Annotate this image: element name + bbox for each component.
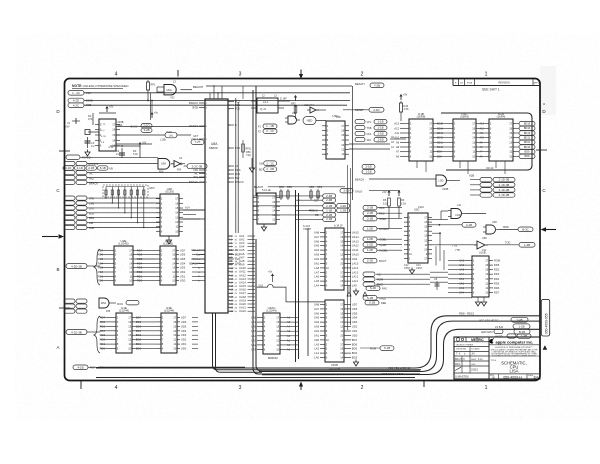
svg-text:RPD: RPD: [287, 186, 292, 189]
gate U4 inverter: [171, 157, 185, 172]
svg-text:F60: F60: [159, 171, 164, 174]
svg-text:LA6: LA6: [251, 325, 256, 329]
RAM enclosure bus box: [441, 113, 532, 170]
svg-text:LS10: LS10: [418, 206, 424, 209]
resistor pair BPD: [279, 186, 292, 200]
svg-text:UD2: UD2: [181, 338, 187, 342]
svg-text:A14: A14: [185, 207, 190, 210]
zone label 1 top: [485, 72, 488, 78]
note text: [72, 84, 128, 88]
svg-text:UA16: UA16: [239, 288, 246, 292]
svg-text:2-1B: 2-1B: [326, 204, 332, 208]
svg-text:(LS244): (LS244): [164, 309, 174, 313]
label BUS1 oval pair: [131, 124, 153, 133]
svg-text:1-3B: 1-3B: [524, 243, 530, 247]
svg-text:2-1D: 2-1D: [367, 259, 373, 263]
svg-text:BD: BD: [259, 169, 263, 172]
svg-text:ROMEN: ROMEN: [379, 227, 389, 231]
svg-text:UA5: UA5: [314, 244, 320, 248]
svg-text:D 14F: D 14F: [280, 98, 287, 101]
svg-text:HALT: HALT: [191, 137, 198, 141]
svg-text:BD5: BD5: [352, 347, 358, 351]
gate U30B: [355, 175, 460, 191]
svg-text:A13: A13: [394, 122, 399, 126]
svg-text:F.Lo: F.Lo: [478, 358, 483, 361]
svg-text:UA14: UA14: [352, 235, 359, 239]
svg-text:1-2D: 1-2D: [367, 227, 373, 231]
svg-text:STRB: STRB: [379, 217, 386, 221]
svg-text:LA3: LA3: [314, 342, 319, 346]
svg-text:ROM: ROM: [494, 259, 501, 263]
zone letter D right: [542, 102, 546, 114]
svg-text:2-1B: 2-1B: [367, 211, 373, 215]
wires into U9C: [349, 136, 406, 149]
svg-text:3/4: 3/4: [534, 376, 539, 380]
svg-text:LA8: LA8: [314, 266, 319, 270]
svg-text:CAS: CAS: [379, 206, 385, 210]
svg-text:A.14.1F: A.14.1F: [334, 225, 343, 228]
svg-text:A6: A6: [396, 154, 400, 158]
svg-text:UA2: UA2: [314, 257, 320, 261]
apple computer inc text: [496, 339, 534, 344]
svg-text:2-1B: 2-1B: [326, 217, 332, 221]
svg-text:VCC-VD1-VD7-F: VCC-VD1-VD7-F: [479, 320, 499, 323]
ground below U9E: [353, 289, 358, 367]
svg-text:UD3: UD3: [352, 320, 358, 324]
svg-text:S.MASTEK: S.MASTEK: [455, 374, 469, 378]
flip-flop U7D: [251, 95, 290, 114]
brace RD bus fan lower: [94, 316, 106, 353]
svg-text:(LS244): (LS244): [119, 309, 129, 313]
label BEACH mid: [254, 185, 345, 189]
svg-text:UD7: UD7: [352, 302, 358, 306]
wire harness left verticals: [104, 197, 142, 199]
wire D0B bus: [84, 104, 347, 106]
svg-text:UA19: UA19: [239, 298, 246, 302]
oval column CAS RAS group: [363, 206, 402, 222]
svg-text:1: 1: [485, 72, 488, 78]
svg-text:A: A: [56, 345, 59, 350]
svg-text:A22: A22: [229, 310, 234, 313]
svg-text:A20: A20: [229, 303, 234, 306]
IC U5C decoder: [404, 206, 432, 263]
svg-text:050-4009-055: 050-4009-055: [544, 313, 548, 334]
svg-text:1F 04: 1F 04: [108, 147, 114, 149]
crystal Y1: [85, 130, 100, 149]
svg-text:Y-4B: Y-4B: [516, 318, 522, 322]
svg-text:Y-2B: Y-2B: [374, 83, 380, 87]
zone tick right y=150: [536, 149, 547, 151]
svg-text:BD7: BD7: [352, 338, 358, 342]
bus name text VD0: [382, 366, 411, 376]
output ovals BD bus: [516, 122, 535, 159]
svg-text:LA13: LA13: [352, 270, 359, 274]
svg-text:A12: A12: [480, 127, 485, 130]
svg-text:VMA1: VMA1: [191, 249, 198, 252]
zone tick bottom x=424: [423, 381, 425, 387]
wires into ROM left: [448, 261, 465, 293]
gate NED oval: [303, 117, 326, 125]
ROM U10B: [459, 249, 501, 297]
svg-text:U6D: U6D: [492, 221, 497, 224]
svg-text:HD: HD: [377, 273, 381, 277]
svg-text:BOOT: BOOT: [379, 259, 387, 263]
RAM PAL U1C: [449, 112, 479, 161]
wire stepped with hop: [257, 284, 325, 302]
oval group A2B right: [469, 174, 515, 198]
svg-text:2.2: 2.2: [91, 145, 95, 148]
svg-text:MFG: MFG: [455, 363, 460, 366]
svg-text:UD3: UD3: [181, 333, 187, 337]
svg-text:UA17: UA17: [239, 291, 246, 295]
svg-text:4 CB: 4 CB: [101, 136, 106, 138]
svg-text:S-1D: S-1D: [370, 286, 377, 290]
svg-text:REE: REE: [381, 302, 386, 305]
connector ovals row y177: [64, 176, 205, 181]
svg-text:+5V: +5V: [65, 126, 70, 129]
svg-text:UD4: UD4: [181, 329, 187, 333]
title block frame: [454, 337, 540, 379]
svg-text:LAL: LAL: [169, 134, 174, 137]
bus latch U9E: [314, 300, 358, 371]
svg-text:RD2: RD2: [494, 268, 500, 272]
svg-text:UA10: UA10: [352, 253, 359, 257]
zone letter C right: [542, 188, 546, 193]
resistor R10 +5V: [399, 94, 409, 122]
svg-text:UA15: UA15: [239, 284, 246, 288]
svg-text:UA10: UA10: [239, 266, 246, 270]
svg-text:(S139): (S139): [165, 190, 174, 194]
oval 4-1D-3B: [66, 330, 100, 335]
svg-text:U5A: U5A: [161, 162, 166, 166]
svg-text:UA2: UA2: [314, 329, 320, 333]
svg-text:+5V: +5V: [109, 106, 114, 109]
svg-text:UA6: UA6: [239, 252, 245, 256]
svg-text:F08: F08: [106, 310, 111, 313]
svg-text:UA12: UA12: [239, 273, 246, 277]
svg-text:2-1D-3B: 2-1D-3B: [499, 178, 510, 182]
CPU address pin rows: [228, 234, 255, 313]
wires U1E to U3E: [135, 317, 198, 348]
svg-text:RD6: RD6: [494, 286, 500, 290]
revision block: [453, 79, 540, 91]
svg-text:DB: DB: [315, 214, 319, 217]
svg-text:BEACH: BEACH: [189, 263, 198, 266]
svg-text:2-1B: 2-1B: [367, 206, 373, 210]
svg-text:BD8: BD8: [525, 155, 530, 158]
wire mid column verticals: [243, 86, 351, 330]
svg-text:32O: 32O: [367, 139, 372, 142]
zone label 3 top: [239, 72, 242, 78]
svg-text:8-1B: 8-1B: [100, 166, 106, 170]
resistor R5C: [246, 151, 255, 172]
svg-text:UA1: UA1: [314, 261, 320, 265]
svg-text:YTB: YTB: [452, 244, 457, 248]
wire vertical risers RP2: [106, 187, 144, 190]
svg-text:LA11: LA11: [352, 279, 359, 283]
label BEACH top: [193, 85, 352, 89]
svg-text:LA8: LA8: [251, 316, 256, 320]
svg-text:B: B: [493, 376, 495, 380]
svg-text:LA7: LA7: [314, 270, 319, 274]
svg-text:DAT-AD13-LAD13: DAT-AD13-LAD13: [382, 372, 404, 376]
svg-text:BD11: BD11: [524, 141, 531, 144]
svg-text:UA15: UA15: [352, 230, 359, 234]
svg-text:L10: L10: [457, 204, 462, 207]
svg-text:UA11: UA11: [352, 248, 359, 252]
oval group left of A2B: [362, 165, 375, 174]
svg-text:UA4: UA4: [239, 245, 245, 249]
svg-text:2023: 2023: [471, 368, 478, 372]
svg-text:+5V: +5V: [403, 94, 408, 97]
svg-text:(LS245): (LS245): [163, 242, 173, 246]
svg-text:NED: NED: [307, 119, 313, 123]
svg-text:UD1: UD1: [181, 342, 187, 346]
zone tick left y=308: [59, 307, 70, 309]
svg-text:1-1B: 1-1B: [377, 132, 383, 136]
zone letter A left: [56, 345, 59, 350]
svg-text:UA1: UA1: [239, 234, 245, 238]
sheet border frame: [65, 79, 541, 381]
svg-text:MRD: MRD: [503, 226, 509, 229]
wire CPU top stubs: [210, 85, 222, 99]
svg-text:UA8: UA8: [314, 230, 320, 234]
zone tick top x=178: [177, 70, 179, 77]
capacitor C1 cluster: [65, 106, 116, 129]
svg-text:UA6: UA6: [314, 239, 320, 243]
svg-text:UD2: UD2: [352, 325, 358, 329]
svg-text:UD1: UD1: [352, 329, 358, 333]
svg-text:UA7: UA7: [314, 235, 320, 239]
buffer YTB: [452, 237, 535, 249]
svg-text:SEE SH/T 1: SEE SH/T 1: [482, 87, 500, 91]
wire right-mid horizontals: [430, 272, 448, 282]
svg-text:TOL ANG: TOL ANG: [471, 348, 480, 351]
svg-text:A10: A10: [229, 267, 234, 270]
svg-text:A12: A12: [229, 274, 234, 277]
IC U7C: [253, 189, 280, 224]
svg-text:BD15: BD15: [437, 123, 444, 126]
bus lines bottom: [96, 367, 415, 377]
svg-text:LA9: LA9: [352, 284, 357, 288]
gate U6A: [157, 81, 192, 100]
oval 4-2D-3B: [66, 264, 100, 269]
svg-text:UD6: UD6: [181, 320, 187, 324]
svg-text:UA7: UA7: [314, 307, 320, 311]
svg-text:2-4B: 2-4B: [326, 198, 332, 202]
title schematic text: [491, 360, 527, 373]
svg-text:1-2D: 1-2D: [367, 237, 373, 241]
svg-text:5.1K: 5.1K: [401, 202, 406, 205]
wire B00B bus: [84, 100, 350, 102]
svg-text:(LS244): (LS244): [266, 309, 276, 313]
svg-text:BD3: BD3: [352, 356, 358, 360]
svg-text:RD3: RD3: [494, 272, 500, 276]
svg-text:LA5: LA5: [314, 279, 319, 283]
svg-text:APPD: APPD: [534, 82, 540, 85]
svg-text:UA9: UA9: [352, 257, 358, 261]
zone label 4 top: [115, 72, 118, 78]
svg-text:1.5K: 1.5K: [404, 108, 409, 111]
svg-text:UD5: UD5: [352, 311, 358, 315]
svg-text:UA5: UA5: [314, 316, 320, 320]
zone arrow right: [541, 227, 557, 231]
wire U2F out B: [183, 218, 205, 220]
wires U1B-U1C rows: [436, 123, 485, 159]
ovals PAS REE right-mid: [365, 286, 387, 305]
svg-text:5 Q: 5 Q: [101, 130, 105, 132]
svg-text:BD8: BD8: [437, 155, 442, 158]
svg-text:2-1D-3B: 2-1D-3B: [499, 183, 510, 187]
svg-text:1-1B: 1-1B: [377, 126, 383, 130]
oval GYRSTB: [64, 161, 99, 166]
svg-text:+5v: +5v: [268, 271, 273, 274]
svg-text:UA13: UA13: [239, 277, 246, 281]
svg-text:4-2D: 4-2D: [73, 99, 79, 103]
svg-text:2-1D: 2-1D: [77, 166, 83, 170]
svg-text:UA18: UA18: [239, 295, 246, 299]
svg-text:UA3: UA3: [314, 325, 320, 329]
svg-text:U9VB: U9VB: [331, 363, 338, 367]
brace RD bus fan: [94, 249, 104, 285]
IC U9B VIA clock: [95, 119, 124, 151]
svg-text:1-2B: 1-2B: [518, 325, 524, 329]
connector oval group left-middle: [64, 196, 160, 230]
zone label 2 bottom: [361, 385, 364, 391]
svg-text:apple computer inc.: apple computer inc.: [496, 339, 534, 344]
svg-text:74Q: 74Q: [246, 154, 251, 157]
svg-text:B: B: [56, 267, 59, 272]
vcc RP2 top: [291, 95, 297, 119]
svg-text:B-3C: B-3C: [522, 227, 529, 231]
svg-text:UA11: UA11: [239, 270, 246, 274]
svg-text:UA8: UA8: [239, 259, 245, 263]
svg-text:BD9: BD9: [525, 151, 530, 154]
svg-text:UA6: UA6: [314, 311, 320, 315]
oval group VPA right: [355, 120, 387, 143]
svg-text:4-2C: 4-2C: [73, 103, 79, 107]
svg-text:4-1D: 4-1D: [65, 166, 71, 170]
svg-text:050-4009-H: 050-4009-H: [503, 375, 522, 379]
svg-text:Bho.5: Bho.5: [455, 357, 462, 361]
vcc at U9B top: [150, 112, 158, 119]
connector ovals row y172: [64, 171, 205, 176]
wire CPU bottom drop A: [213, 313, 422, 370]
svg-text:Y02: Y02: [170, 97, 175, 100]
svg-text:UA12: UA12: [352, 244, 359, 248]
svg-text:UD7: UD7: [180, 248, 186, 252]
svg-text:A10: A10: [394, 136, 399, 140]
label oval 2-2C-3B: [184, 164, 208, 169]
svg-text:BGB: BGB: [192, 106, 198, 110]
svg-text:DTACK: DTACK: [235, 180, 244, 184]
gate U13B: [160, 132, 205, 144]
oval BOOT: [363, 259, 387, 264]
svg-text:+5v: +5v: [154, 112, 159, 115]
svg-text:LA1: LA1: [251, 347, 256, 351]
ground below crystal: [85, 150, 90, 157]
svg-text:(16R8): (16R8): [417, 115, 426, 119]
connector ovals row y182: [64, 180, 205, 185]
label BEACH right: [355, 82, 384, 88]
svg-text:A10: A10: [480, 137, 485, 140]
svg-text:A11: A11: [229, 271, 234, 274]
svg-text:LA15: LA15: [352, 261, 359, 265]
svg-text:5-1B: 5-1B: [367, 296, 373, 300]
svg-text:1: 1: [485, 385, 488, 391]
svg-text:UD0: UD0: [180, 279, 186, 283]
resistor RP1: [147, 80, 156, 101]
svg-text:GB: GB: [259, 163, 263, 166]
oval column ROMEN group: [363, 227, 402, 253]
svg-text:TITLE: TITLE: [491, 360, 497, 362]
svg-text:UD3: UD3: [180, 266, 186, 270]
wire CLK vertical bus: [253, 86, 256, 236]
connector J1 top-left ovals: [68, 91, 93, 108]
svg-text:IRQ: IRQ: [89, 177, 94, 181]
zone arrow top center: [299, 70, 303, 80]
svg-text:UA13: UA13: [352, 239, 359, 243]
svg-text:YTB: YTB: [455, 249, 460, 252]
ground below U7C: [261, 225, 266, 232]
svg-text:2-1B: 2-1B: [343, 189, 349, 193]
svg-text:A14: A14: [229, 281, 234, 284]
svg-text:A7: A7: [396, 150, 400, 154]
svg-text:A17: A17: [229, 292, 234, 295]
svg-text:UD1: UD1: [180, 274, 186, 278]
svg-text:RAS: RAS: [379, 212, 385, 216]
text ROM-RD15: [459, 312, 474, 316]
wire YTB long: [430, 245, 461, 252]
svg-text:UA2: UA2: [239, 238, 245, 242]
svg-text:2 - 1C: 2 - 1C: [266, 129, 274, 133]
svg-text:T .X: T .X: [456, 353, 461, 356]
svg-text:BRACK: BRACK: [189, 180, 198, 184]
gate U10C AND right: [428, 204, 486, 219]
svg-text:UNLESS OTHERWISE SPECIFIED: UNLESS OTHERWISE SPECIFIED: [83, 84, 128, 88]
svg-text:LISA: LISA: [509, 369, 518, 374]
wires U5C to ROM risers: [432, 232, 444, 270]
svg-text:RD5: RD5: [494, 281, 500, 285]
oval FREE: [363, 296, 472, 301]
gate W5A cluster: [64, 298, 139, 313]
zone label 4 bottom: [115, 385, 118, 391]
buffer bank U1E: [100, 306, 142, 353]
svg-text:LED DAT2: LED DAT2: [481, 331, 493, 334]
svg-text:L13B: L13B: [160, 139, 166, 142]
svg-text:UD5: UD5: [180, 257, 186, 261]
svg-text:5.1K: 5.1K: [133, 153, 138, 156]
svg-text:4: 4: [115, 385, 118, 391]
vertical drawing number strip: [541, 299, 549, 336]
svg-text:UD0: UD0: [181, 347, 187, 351]
svg-text:RD4: RD4: [494, 277, 500, 281]
svg-text:MOD: MOD: [117, 302, 123, 306]
svg-text:LA4: LA4: [251, 334, 256, 338]
oval RD7-RD0 bottom left: [73, 365, 104, 370]
svg-text:LS B-R: LS B-R: [495, 326, 503, 329]
svg-text:U6A: U6A: [166, 88, 172, 92]
svg-text:1-2D: 1-2D: [367, 248, 373, 252]
IC U9C latch: [322, 114, 349, 159]
RAM PAL U1B: [394, 112, 436, 161]
svg-text:LA0: LA0: [314, 356, 319, 360]
svg-text:A19: A19: [229, 299, 234, 302]
svg-text:BD12: BD12: [437, 137, 444, 140]
wires below RAM PALs: [417, 161, 505, 174]
svg-text:2-1B: 2-1B: [365, 165, 371, 169]
ovals RPG cluster below U7D: [259, 161, 277, 172]
